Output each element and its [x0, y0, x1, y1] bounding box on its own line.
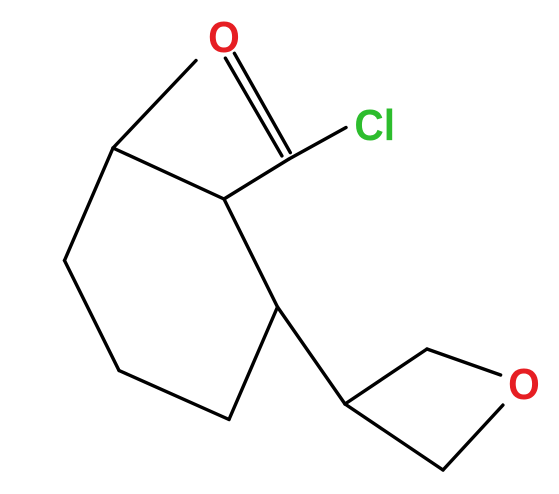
svg-text:O: O — [508, 359, 540, 408]
svg-text:O: O — [208, 13, 240, 62]
svg-text:Cl: Cl — [354, 100, 395, 149]
